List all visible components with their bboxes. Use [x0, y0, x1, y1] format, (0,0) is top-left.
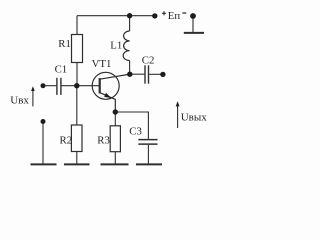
svg-text:L1: L1: [110, 40, 122, 52]
svg-text:R3: R3: [97, 134, 110, 146]
svg-text:C2: C2: [142, 55, 155, 67]
svg-text:Uвх: Uвх: [10, 95, 29, 107]
svg-text:C3: C3: [129, 125, 142, 137]
svg-text:VT1: VT1: [92, 58, 112, 70]
svg-text:Eп: Eп: [168, 10, 181, 22]
svg-text:R2: R2: [60, 134, 73, 146]
svg-text:C1: C1: [55, 63, 68, 75]
svg-text:R1: R1: [58, 38, 71, 50]
svg-text:Uвых: Uвых: [181, 112, 208, 124]
